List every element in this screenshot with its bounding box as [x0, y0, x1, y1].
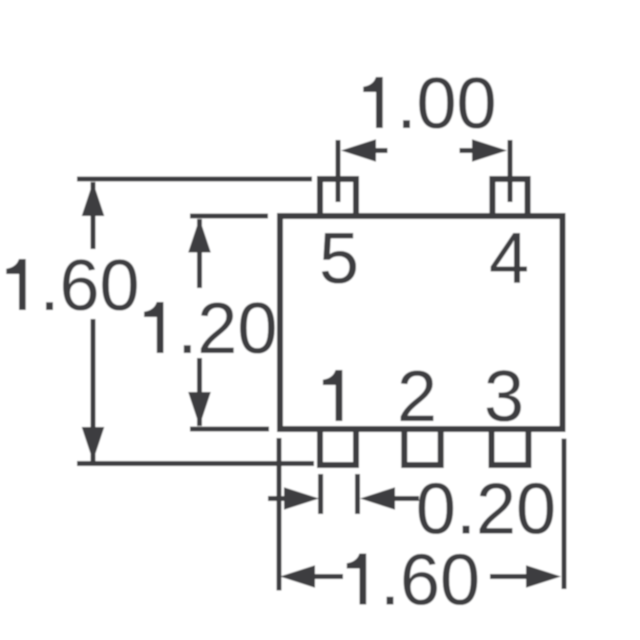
arrowhead left-pointing (dim 0.20 right): [360, 487, 395, 510]
pin 4 lead (top right): [492, 179, 527, 218]
arrowhead down (dim 1.60 left): [82, 427, 105, 461]
label text 1.60 left background: [0, 249, 137, 319]
extension line body right (dim 1.60 bottom): [562, 439, 567, 589]
svg-text:4: 4: [489, 219, 529, 299]
pin 3 lead (bottom right): [492, 428, 529, 465]
dimension tail right (dim 0.20): [393, 496, 419, 501]
label text 1.20 background: [135, 288, 272, 358]
svg-text:5: 5: [319, 219, 359, 299]
digit 1 glyph of label 1.20: [144, 302, 163, 353]
arrowhead up (dim 1.60 left): [82, 182, 105, 216]
pin 2 lead (bottom middle): [404, 428, 440, 465]
arrowhead left (dim 1.00): [341, 139, 376, 162]
dimension line 1.60 left vertical: [91, 182, 96, 461]
svg-text:2: 2: [397, 357, 437, 437]
dimension tail left (dim 1.00): [374, 148, 388, 153]
extension line pin 4 center (dim 1.00): [508, 140, 513, 202]
digit 1 glyph of label 1.60 left: [6, 259, 25, 310]
dimension tail left (dim 0.20): [268, 496, 286, 501]
extension line body top (dim 1.20): [190, 214, 268, 219]
package body: [280, 216, 563, 429]
digit 1 glyph of label 1.00: [363, 77, 382, 128]
svg-text:3: 3: [484, 357, 524, 437]
pin 1 lead (bottom left): [320, 428, 356, 465]
arrowhead left-pointing (dim 1.60 bottom): [280, 565, 315, 588]
arrowhead down (dim 1.20): [188, 392, 211, 426]
digit 1 glyph of label 1.60 bottom: [347, 554, 366, 605]
arrowhead right-pointing (dim 1.60 bottom): [526, 565, 561, 588]
tick right edge pin 1 (dim 0.20): [355, 474, 360, 514]
extension line pin 5 center (dim 1.00): [336, 140, 341, 202]
dimension tail right (dim 1.00): [460, 148, 475, 153]
pin 5 lead (top left): [320, 179, 356, 218]
extension line body left (dim 1.60 bottom): [277, 438, 282, 591]
extension line bottom of leads (dim 1.60 left): [77, 461, 314, 466]
arrowhead right-pointing (dim 0.20 left): [284, 487, 319, 510]
pin number 1 glyph: [323, 370, 342, 421]
dimension line 1.20 vertical: [197, 219, 202, 426]
svg-text:0.20: 0.20: [416, 470, 556, 550]
dimension tail left (dim 1.60 bottom): [314, 574, 343, 579]
tick left edge pin 1 (dim 0.20): [318, 474, 323, 514]
arrowhead up (dim 1.20): [188, 219, 211, 253]
dimension tail right (dim 1.60 bottom): [490, 574, 527, 579]
extension line top of leads (dim 1.60 left): [77, 177, 312, 182]
extension line body bottom (dim 1.20): [190, 427, 269, 432]
arrowhead right (dim 1.00): [472, 139, 507, 162]
